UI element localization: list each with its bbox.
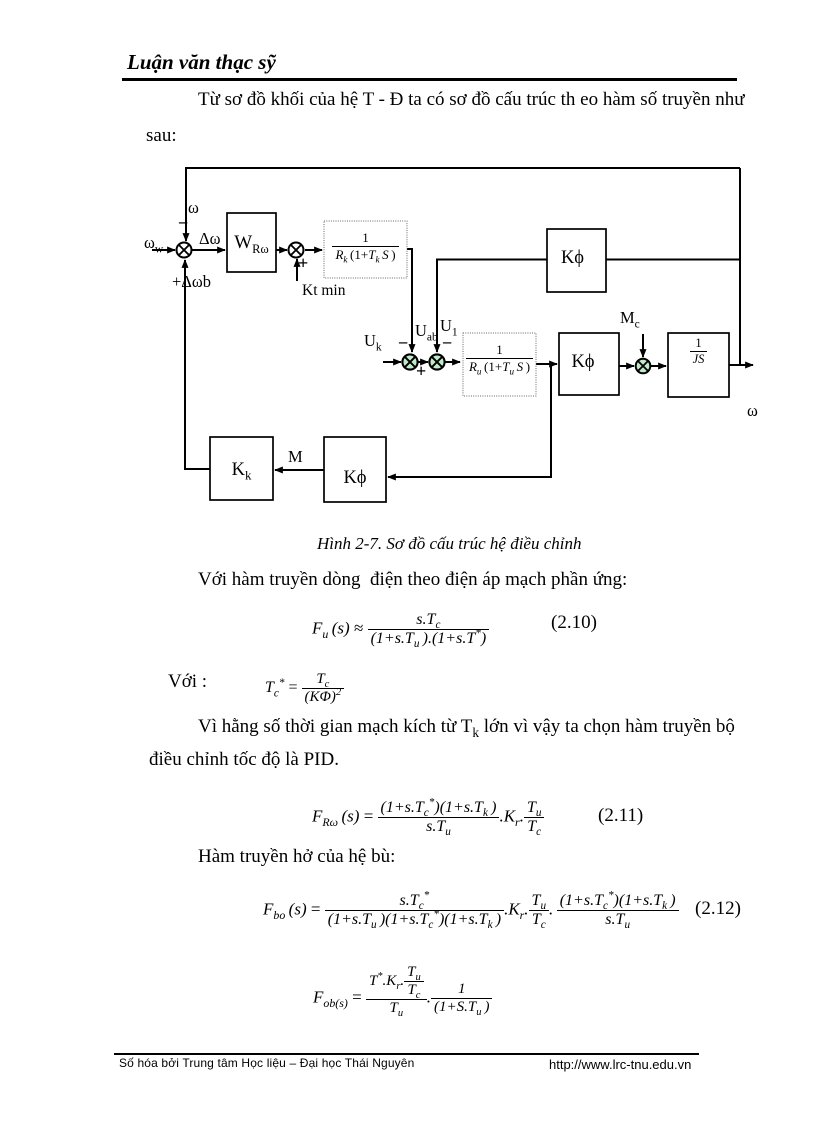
block top Kphi <box>547 229 606 292</box>
wire: Mc arrow down into J5 <box>642 334 644 357</box>
header rule <box>122 78 737 81</box>
wire: current tap down and into bottom Kphi <box>420 364 551 477</box>
wire: Kk out, up into J1 from below <box>185 300 210 469</box>
text WRw <box>227 232 276 254</box>
text B1 fraction <box>326 230 405 263</box>
label omega output <box>747 401 758 421</box>
block Kk <box>210 437 273 500</box>
text Kk <box>210 460 273 481</box>
label minus at J3 <box>399 332 407 352</box>
summing junction J3 (green) <box>402 354 417 369</box>
label U1 <box>440 316 458 336</box>
text middle Kphi <box>553 352 613 373</box>
block WRw <box>227 213 276 272</box>
wire: J4 to block B2 <box>445 361 460 363</box>
block B1 1/(Rk(1+TkS)) frame <box>324 221 407 278</box>
paragraph 3 line 2 <box>149 749 339 771</box>
block 1/JS <box>668 333 729 397</box>
footer right text <box>549 1057 691 1072</box>
label Mc <box>620 308 640 328</box>
paragraph 1 line 2 <box>146 125 177 147</box>
wire: B2 to middle Kphi <box>536 363 557 365</box>
Voi : <box>168 671 207 693</box>
wire: J3 to J4 <box>418 361 428 363</box>
wire: bottom Kphi to Kk (M) <box>275 469 324 471</box>
formula 2.11 <box>312 799 544 836</box>
footer rule <box>114 1053 699 1055</box>
label minus at J1 <box>179 212 187 232</box>
eq number 2.12 <box>695 898 741 920</box>
text top Kphi <box>543 248 602 269</box>
summing junction J5 (green) <box>636 359 651 374</box>
caption <box>317 534 582 554</box>
text B2 fraction <box>464 342 535 375</box>
label omega (top left) <box>188 198 199 218</box>
paragraph 3 line 1 <box>198 716 735 738</box>
summing junction J2 <box>289 243 304 258</box>
label delta-omega <box>199 229 220 249</box>
paragraph 4 <box>198 846 395 868</box>
wire: J1 to WRw block <box>192 249 225 251</box>
label Uk <box>364 331 382 351</box>
footer left text <box>119 1056 414 1070</box>
formula 2.12 <box>263 892 679 929</box>
block B2 1/(Ru(1+TuS)) frame <box>463 333 536 396</box>
wire: output of 1/JS with arrow <box>729 364 753 366</box>
wire: top feedback line <box>186 168 740 241</box>
wire: middle Kphi to J5 <box>619 365 634 367</box>
label minus at J4 <box>443 332 451 352</box>
block bottom Kphi <box>324 437 386 502</box>
label Uab <box>415 321 438 341</box>
wire: input arrow into J1 <box>152 249 175 251</box>
label +delta-omega-b <box>172 272 211 292</box>
text 1/JS fraction <box>668 336 729 367</box>
wire: WRw to J2 <box>276 249 287 251</box>
label plus between J3 J4 <box>416 361 426 382</box>
wire: J2 to block B1 <box>305 249 322 251</box>
summing junction J4 (green) <box>429 354 444 369</box>
text bottom Kphi <box>324 468 386 489</box>
wire: Uk input arrow into J3 <box>383 361 401 363</box>
wire: right feedback vertical <box>739 168 741 365</box>
wire: arrow into junction J1 from top <box>185 230 187 241</box>
formula 2.10 <box>312 611 489 648</box>
formula Fob <box>313 964 492 1017</box>
block middle Kphi <box>559 333 619 395</box>
header title <box>127 50 276 75</box>
label Kt min <box>302 282 346 300</box>
paragraph 2 <box>198 569 627 591</box>
eq number 2.10 <box>551 612 597 634</box>
wire: U1 drop into J4 from Kphi top line <box>437 260 547 301</box>
wire: top Kphi right to feedback <box>606 259 740 261</box>
label plus at J2 <box>298 253 308 274</box>
eq number 2.11 <box>598 805 643 827</box>
wire: Kt min arrow up into J2 <box>296 259 298 281</box>
paragraph 1 line 1 <box>198 89 745 111</box>
formula Tc* <box>265 671 344 706</box>
wire: J5 to block 1/JS <box>651 365 666 367</box>
summing junction J1 <box>177 243 192 258</box>
wire: B1 out, down into J3 (Uab) <box>407 249 412 300</box>
label M <box>288 447 303 467</box>
label omega_w <box>144 233 163 253</box>
